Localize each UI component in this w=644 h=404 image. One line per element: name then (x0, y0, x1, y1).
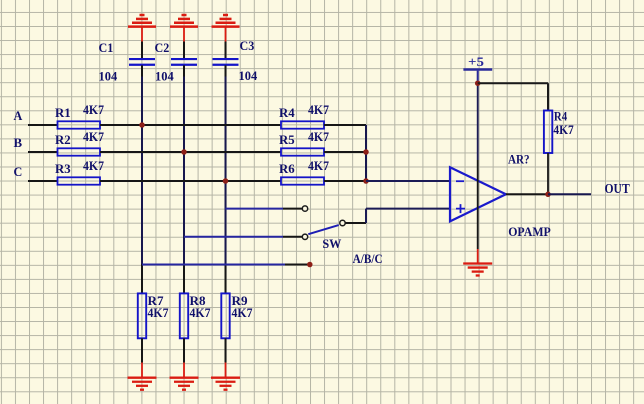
pin capacitor C3 bottom (225, 65, 227, 76)
resistor R2 (58, 148, 101, 155)
svg-text:C1: C1 (99, 40, 114, 55)
capacitor C3 (213, 59, 239, 65)
wire R8 to ground (183, 338, 185, 362)
junction B-C2 (181, 149, 187, 155)
wire R2 to R5 (100, 151, 281, 153)
wire input B to R2 (28, 151, 58, 153)
switch contact B (302, 234, 307, 239)
wire switch throw A (226, 208, 284, 210)
op-amp power vertical wire lower (477, 160, 479, 249)
svg-text:R6: R6 (279, 161, 295, 176)
junction summing R5 (363, 149, 369, 155)
power symbol above C3 (212, 15, 240, 42)
wire feedback top (547, 83, 549, 110)
svg-text:R3: R3 (55, 161, 71, 176)
wire +5 to feedback R4 (478, 82, 548, 84)
wire +5 stub (477, 71, 479, 84)
wire switch common (345, 222, 366, 224)
wire R4 output (324, 124, 366, 126)
svg-text:R5: R5 (279, 132, 295, 147)
resistor R5 (281, 148, 324, 155)
svg-text:4K7: 4K7 (148, 305, 169, 320)
wire feedback bottom (547, 153, 549, 194)
svg-text:4K7: 4K7 (83, 129, 104, 144)
pin stub C3 bus to R9 (225, 265, 227, 294)
svg-text:A/B/C: A/B/C (353, 251, 383, 266)
resistor R3 (58, 177, 101, 184)
op-amp power vertical wire upper (477, 83, 479, 160)
wire op-amp output (506, 193, 548, 195)
svg-text:C: C (14, 164, 23, 179)
op-amp minus sign (456, 180, 464, 182)
junction C-C3 (223, 178, 229, 184)
resistor R8 (180, 293, 188, 338)
svg-text:104: 104 (239, 68, 258, 83)
wire C net black end (285, 264, 308, 266)
switch common contact (340, 220, 345, 225)
ground red stub (141, 363, 143, 378)
wire R1 to R4 (100, 124, 281, 126)
power symbol above C1 (128, 15, 156, 42)
svg-text:4K7: 4K7 (308, 158, 329, 173)
svg-text:C3: C3 (240, 38, 255, 53)
wire bus C1 vertical (141, 77, 143, 265)
svg-text:104: 104 (155, 69, 174, 84)
wire switch throw B (184, 236, 283, 238)
svg-text:R1: R1 (55, 105, 71, 120)
svg-text:R2: R2 (55, 132, 71, 147)
switch contact A (302, 206, 307, 211)
resistor R6 (281, 177, 324, 184)
wire power to C1 (141, 42, 143, 59)
ground op-amp red stub (477, 249, 479, 264)
resistor R4 feedback (544, 111, 552, 154)
wire to op-amp inverting input (366, 180, 450, 182)
svg-text:4K7: 4K7 (83, 102, 104, 117)
wire step vertical (365, 209, 367, 223)
power symbol above C2 (170, 15, 198, 42)
wire power to C3 (225, 42, 227, 59)
ground red stub (183, 363, 185, 378)
resistor R4 (281, 121, 324, 128)
svg-text:4K7: 4K7 (190, 305, 211, 320)
switch SW lever (308, 225, 338, 234)
op-amp plus sign (456, 204, 465, 213)
svg-text:4K7: 4K7 (83, 158, 104, 173)
svg-text:SW: SW (322, 236, 341, 251)
junction summing R6 (363, 178, 369, 184)
pin capacitor C1 bottom (141, 65, 143, 76)
wire summing vertical (365, 125, 367, 181)
junction +5 (475, 80, 481, 86)
svg-text:R4: R4 (279, 105, 295, 120)
ground R9 (211, 378, 240, 390)
wire R7 to ground (141, 338, 143, 362)
junction end dot A/B/C (307, 262, 313, 268)
pin capacitor C2 bottom (183, 65, 185, 76)
wire bus C3 vertical (225, 77, 227, 265)
svg-text:4K7: 4K7 (553, 122, 574, 137)
ground R8 (170, 378, 199, 390)
svg-text:OUT: OUT (605, 182, 631, 197)
capacitor C1 (129, 59, 155, 65)
wire input C to R3 (28, 180, 58, 182)
svg-text:A: A (14, 108, 23, 123)
wire R3 to R6 (100, 180, 281, 182)
svg-text:+5: +5 (468, 54, 485, 69)
svg-text:4K7: 4K7 (308, 102, 329, 117)
pin stub C2 bus to R8 (183, 265, 185, 294)
wire to op-amp non-inverting input (366, 208, 450, 210)
wire output to OUT (548, 193, 591, 195)
wire power to C2 (183, 42, 185, 59)
op-amp AR? triangle (450, 167, 506, 221)
pin switch throw A (283, 208, 302, 210)
capacitor C2 (171, 59, 197, 65)
resistor R7 (138, 293, 146, 338)
ground red stub (225, 363, 227, 378)
svg-text:C2: C2 (155, 40, 170, 55)
resistor R9 (221, 293, 229, 338)
junction output-feedback (545, 192, 551, 198)
svg-text:4K7: 4K7 (232, 305, 253, 320)
junction A-C1 (139, 122, 145, 128)
pin switch throw B (283, 236, 302, 238)
wire bus C2 vertical (183, 77, 185, 265)
wire R6 output (324, 180, 366, 182)
wire input A to R1 (28, 124, 58, 126)
power +5 bar (463, 68, 492, 70)
svg-text:4K7: 4K7 (308, 129, 329, 144)
wire C net to switch area (142, 264, 285, 266)
svg-text:B: B (14, 135, 23, 150)
ground R7 (128, 378, 157, 390)
resistor R1 (58, 121, 101, 128)
svg-text:OPAMP: OPAMP (508, 224, 551, 239)
ground op-amp (463, 264, 492, 276)
svg-text:AR?: AR? (508, 151, 530, 166)
pin stub C1 bus to R7 (141, 264, 143, 293)
wire R9 to ground (225, 338, 227, 362)
svg-text:104: 104 (99, 69, 118, 84)
wire R5 output (324, 151, 366, 153)
